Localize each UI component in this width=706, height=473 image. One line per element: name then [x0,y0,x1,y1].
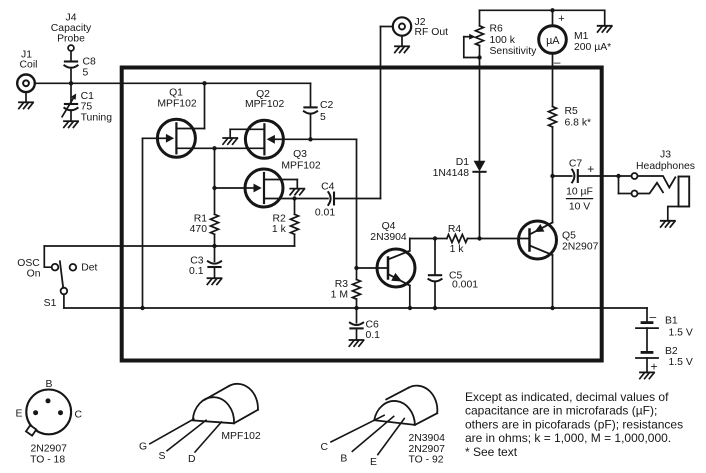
svg-text:TO - 18: TO - 18 [30,455,65,466]
svg-text:2N2907: 2N2907 [30,444,67,455]
svg-text:1 k: 1 k [450,244,465,255]
svg-text:RF Out: RF Out [415,27,449,38]
svg-text:M1: M1 [574,31,589,42]
svg-text:2N3904: 2N3904 [370,232,407,243]
svg-text:2N2907: 2N2907 [409,444,446,455]
svg-text:–: – [554,55,561,69]
svg-text:C6: C6 [366,319,380,330]
svg-text:others are in picofarads (pF);: others are in picofarads (pF); resistanc… [465,417,683,431]
svg-text:B1: B1 [665,316,678,327]
svg-text:C8: C8 [83,56,97,67]
svg-text:D: D [188,454,196,465]
svg-text:C4: C4 [321,182,335,193]
svg-text:Q2: Q2 [256,89,270,100]
svg-text:0.001: 0.001 [452,280,478,291]
svg-text:Capacity: Capacity [51,23,92,34]
svg-text:E: E [16,408,23,419]
svg-text:10 µF: 10 µF [566,187,593,198]
svg-text:0.1: 0.1 [189,266,204,277]
svg-text:R6: R6 [490,23,504,34]
svg-text:R1: R1 [194,213,208,224]
svg-text:Except as indicated, decimal v: Except as indicated, decimal values of [465,390,669,404]
svg-text:Q1: Q1 [169,87,183,98]
svg-text:S: S [159,451,166,462]
svg-text:C: C [320,442,328,453]
svg-text:C3: C3 [190,255,204,266]
svg-text:Q5: Q5 [562,230,576,241]
svg-text:B: B [46,379,53,390]
svg-text:C1: C1 [81,91,95,102]
svg-text:MPF102: MPF102 [221,431,260,442]
svg-text:J2: J2 [415,17,426,28]
svg-text:MPF102: MPF102 [157,99,196,110]
svg-text:B2: B2 [665,346,678,357]
svg-text:B: B [340,453,347,464]
svg-text:–: – [650,309,657,323]
svg-text:Sensitivity: Sensitivity [490,46,538,57]
svg-text:R5: R5 [565,106,579,117]
svg-text:+: + [558,13,564,25]
svg-text:On: On [27,268,41,279]
svg-text:R3: R3 [335,279,349,290]
svg-text:µA: µA [546,35,560,47]
svg-text:0.01: 0.01 [315,207,335,218]
svg-text:J4: J4 [66,13,77,24]
svg-text:Det: Det [81,263,97,274]
svg-text:J3: J3 [660,149,671,160]
svg-text:D1: D1 [456,157,470,168]
svg-text:1.5 V: 1.5 V [669,328,693,339]
svg-text:Q4: Q4 [382,221,396,232]
svg-text:0.1: 0.1 [366,330,381,341]
svg-text:5: 5 [83,68,89,79]
svg-text:Q3: Q3 [293,149,307,160]
svg-text:MPF102: MPF102 [245,99,284,110]
svg-text:R4: R4 [448,224,462,235]
svg-text:5: 5 [320,112,326,123]
svg-text:TO - 92: TO - 92 [409,455,444,466]
svg-text:+: + [587,162,594,176]
svg-text:Tuning: Tuning [81,113,113,124]
svg-text:75: 75 [81,101,93,112]
svg-text:C7: C7 [569,159,583,170]
svg-text:Headphones: Headphones [636,161,695,172]
svg-text:10 V: 10 V [569,201,590,212]
svg-text:+: + [651,359,658,373]
svg-text:capacitance are in microfarads: capacitance are in microfarads (µF); [465,404,657,418]
svg-text:OSC: OSC [17,258,40,269]
svg-text:E: E [370,457,377,468]
svg-text:200 µA*: 200 µA* [574,42,611,53]
svg-text:100 k: 100 k [490,35,516,46]
svg-text:6.8 k*: 6.8 k* [565,117,592,128]
svg-text:R2: R2 [273,213,287,224]
svg-text:470: 470 [190,224,208,235]
svg-text:Probe: Probe [57,34,85,45]
svg-text:S1: S1 [44,298,57,309]
svg-text:2N3904: 2N3904 [409,433,446,444]
svg-text:2N2907: 2N2907 [562,242,599,253]
svg-text:MPF102: MPF102 [281,160,320,171]
svg-text:are in ohms; k = 1,000, M = 1,: are in ohms; k = 1,000, M = 1,000,000. [465,431,671,445]
svg-text:C: C [75,409,83,420]
svg-text:1.5 V: 1.5 V [669,357,693,368]
svg-text:1 k: 1 k [272,224,287,235]
svg-text:G: G [139,441,147,452]
svg-text:Coil: Coil [20,59,38,70]
svg-text:C2: C2 [320,100,334,111]
svg-text:* See text: * See text [465,445,518,459]
svg-text:1 M: 1 M [331,289,348,300]
svg-text:1N4148: 1N4148 [433,168,470,179]
